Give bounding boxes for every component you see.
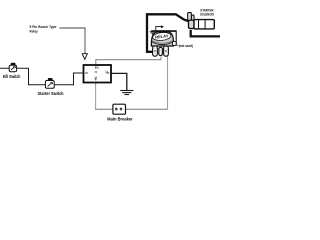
svg-text:Main Breaker: Main Breaker <box>107 117 133 122</box>
svg-text:Relay: Relay <box>30 30 39 34</box>
svg-text:(not used): (not used) <box>179 43 194 48</box>
svg-text:5 Pin Bosch Type: 5 Pin Bosch Type <box>30 25 57 29</box>
svg-text:Kill Switch: Kill Switch <box>3 74 21 79</box>
svg-text:SOLENOID: SOLENOID <box>200 12 214 17</box>
svg-text:Starter Switch: Starter Switch <box>38 91 64 96</box>
